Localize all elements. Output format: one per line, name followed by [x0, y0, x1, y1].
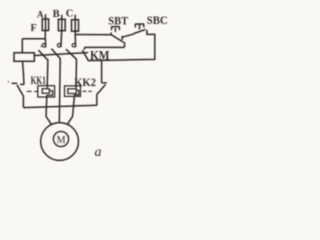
wire phase B stub — [61, 15, 63, 31]
contactor coil KM — [14, 53, 34, 62]
svg-text:KK2: KK2 — [74, 77, 96, 89]
wire fuse A lead down — [44, 31, 46, 39]
button actuator SBT — [111, 27, 119, 32]
wire phase A continue — [44, 39, 46, 48]
contact blade KM phase B — [51, 49, 60, 59]
linkage KM — [35, 53, 89, 56]
svg-text:SBT: SBT — [108, 15, 128, 27]
wire phase A to heater — [46, 60, 49, 86]
contact KK1 (NC, control) — [20, 83, 24, 85]
mech link KK1 (dashed) — [27, 90, 39, 92]
contact hook A — [42, 44, 46, 48]
svg-text:A: A — [37, 9, 44, 19]
wire KK1 contact down — [22, 96, 24, 108]
fuse F (phase A) — [42, 19, 48, 31]
contact blade KM phase A — [38, 50, 48, 60]
svg-text:M: M — [57, 135, 66, 146]
svg-text:C: C — [66, 9, 74, 20]
wire phase C to heater — [75, 59, 78, 86]
relay heater KK2 — [65, 86, 81, 97]
svg-text:a: a — [95, 145, 102, 160]
wire phase C stub — [74, 15, 76, 31]
wire phase C continue — [74, 35, 76, 48]
mech link KK2 (dashed) — [83, 90, 92, 92]
motor M outer — [41, 123, 79, 161]
fuse F (phase C) — [72, 20, 79, 32]
speck — [40, 46, 41, 47]
wire coil bottom — [23, 61, 25, 84]
wire fuse B lead down — [60, 31, 63, 48]
contact hook C — [72, 43, 76, 47]
svg-text:SBC: SBC — [147, 15, 168, 27]
contact SBC (NO) — [134, 29, 146, 33]
button actuator SBC — [135, 24, 144, 30]
contact blade KM phase C — [66, 49, 77, 59]
wire aux branch — [84, 42, 124, 47]
fuse F (phase B) — [58, 19, 65, 30]
contact SBT (NC) — [110, 32, 112, 35]
contact blade KM aux — [82, 50, 88, 59]
wire SBT to SBC — [122, 34, 134, 37]
contact KK2 (NC, control) — [101, 60, 103, 83]
wire tap to SBT — [75, 34, 110, 36]
motor M inner — [53, 131, 68, 146]
contact hook KM aux — [83, 47, 85, 50]
contact hook B — [57, 44, 61, 48]
svg-text:KM: KM — [90, 47, 110, 62]
wire fuse C lead down — [74, 31, 76, 34]
wire phase A stub — [45, 14, 47, 30]
svg-text:F: F — [30, 23, 36, 34]
wire control bottom — [23, 105, 96, 107]
wire heater KK1 to motor — [46, 97, 52, 125]
wire branch to coil — [22, 39, 45, 53]
wire SBC right down and across — [88, 34, 155, 60]
wire phase B down — [58, 59, 61, 123]
wire heater KK2 to motor — [67, 97, 74, 125]
relay heater KK1 — [38, 86, 55, 97]
